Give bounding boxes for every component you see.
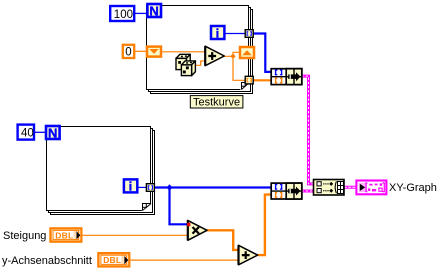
iteration terminal i of FL2	[124, 179, 137, 193]
wire y-Achsenabschnitt to add2 bottom input	[129, 259, 239, 261]
for-loop FL2 main border	[47, 127, 151, 211]
iteration terminal i of FL1	[211, 26, 224, 40]
for-loop FL2 stacked border middle sheet	[49, 129, 153, 213]
wire 40-to-N	[35, 131, 47, 133]
cluster array wire build array to XY-Graph terminal	[344, 186, 356, 189]
svg-text:N: N	[149, 3, 158, 18]
wire 100-to-N	[135, 12, 147, 14]
indicator terminal XY-Graph	[356, 181, 386, 195]
junction dot J1	[230, 54, 235, 59]
label Testkurve	[190, 96, 243, 109]
for-loop FL2 dog-ear corner fold	[142, 203, 152, 212]
add function node (inside FL1)	[205, 46, 224, 65]
svg-text:0: 0	[125, 47, 131, 59]
svg-text:XY-Graph: XY-Graph	[389, 182, 437, 194]
wire junction down to orange tunnel	[233, 56, 246, 80]
svg-text:Testkurve: Testkurve	[193, 97, 240, 109]
wire i-to-blue-tunnel	[226, 33, 246, 35]
wire Steigung to multiply bottom input	[82, 234, 188, 236]
svg-text:DBL: DBL	[55, 230, 73, 240]
coercion dot on multiply input	[187, 223, 190, 226]
control terminal y-Achsenabschnitt DBL	[2, 253, 129, 267]
cluster wire bundle2 to build array bottom input	[302, 190, 314, 193]
shift register right (up arrow)	[240, 47, 254, 58]
add function node (bottom)	[239, 245, 258, 264]
svg-text:i: i	[216, 26, 219, 40]
wire add1 output to junction and right shift register	[224, 52, 239, 56]
control terminal Steigung DBL	[3, 228, 81, 242]
wire i2-to-tunnel2	[137, 186, 146, 188]
svg-text:N: N	[48, 125, 57, 140]
cluster wire bundle1 to build array top input	[302, 76, 314, 184]
for-loop FL1 main border	[147, 6, 249, 90]
auto-index tunnel FL1 blue	[245, 30, 253, 38]
count terminal N of FL2	[46, 125, 60, 140]
random number dice icon	[176, 54, 195, 75]
numeric constant 0	[123, 45, 134, 59]
for-loop FL2 stacked border back sheet	[51, 131, 155, 215]
junction dot J2	[167, 184, 173, 191]
auto-index tunnel FL1 orange	[245, 76, 253, 84]
svg-text:i: i	[129, 180, 132, 194]
wire multiply output to add2 top input	[207, 230, 239, 250]
bundle node B1	[271, 69, 302, 85]
wire blue array tunnel1 to bundle1 top	[253, 34, 272, 72]
svg-text:DBL: DBL	[103, 255, 121, 265]
build array node	[314, 180, 345, 196]
wire dice-to-add1 bottom input	[194, 61, 206, 65]
bundle node B2	[271, 183, 302, 199]
for-loop FL1 stacked border back sheet	[151, 10, 253, 94]
wire shift-register-to-add1 top input	[162, 51, 205, 53]
wire blue array branch down to multiply	[170, 188, 188, 225]
for-loop FL1 dog-ear corner fold	[240, 82, 249, 91]
numeric constant 40	[18, 125, 34, 140]
wire blue array tunnel2 to bundle2 top	[155, 186, 272, 188]
numeric constant 100	[110, 6, 134, 21]
wire add2 output up to bundle2 bottom	[258, 195, 272, 256]
shift register left (down arrow)	[147, 47, 161, 57]
wire 0-to-shift-register	[135, 50, 147, 52]
svg-text:100: 100	[114, 9, 133, 21]
svg-text:Steigung: Steigung	[3, 230, 46, 242]
svg-text:y-Achsenabschnitt: y-Achsenabschnitt	[2, 255, 92, 267]
auto-index tunnel FL2 blue	[146, 184, 154, 192]
svg-text:40: 40	[21, 128, 34, 140]
count terminal N of FL1	[147, 3, 161, 18]
wire orange array tunnel to bundle1 bottom	[252, 79, 272, 81]
for-loop FL1 stacked border middle sheet	[149, 8, 251, 92]
multiply function node	[188, 220, 207, 240]
